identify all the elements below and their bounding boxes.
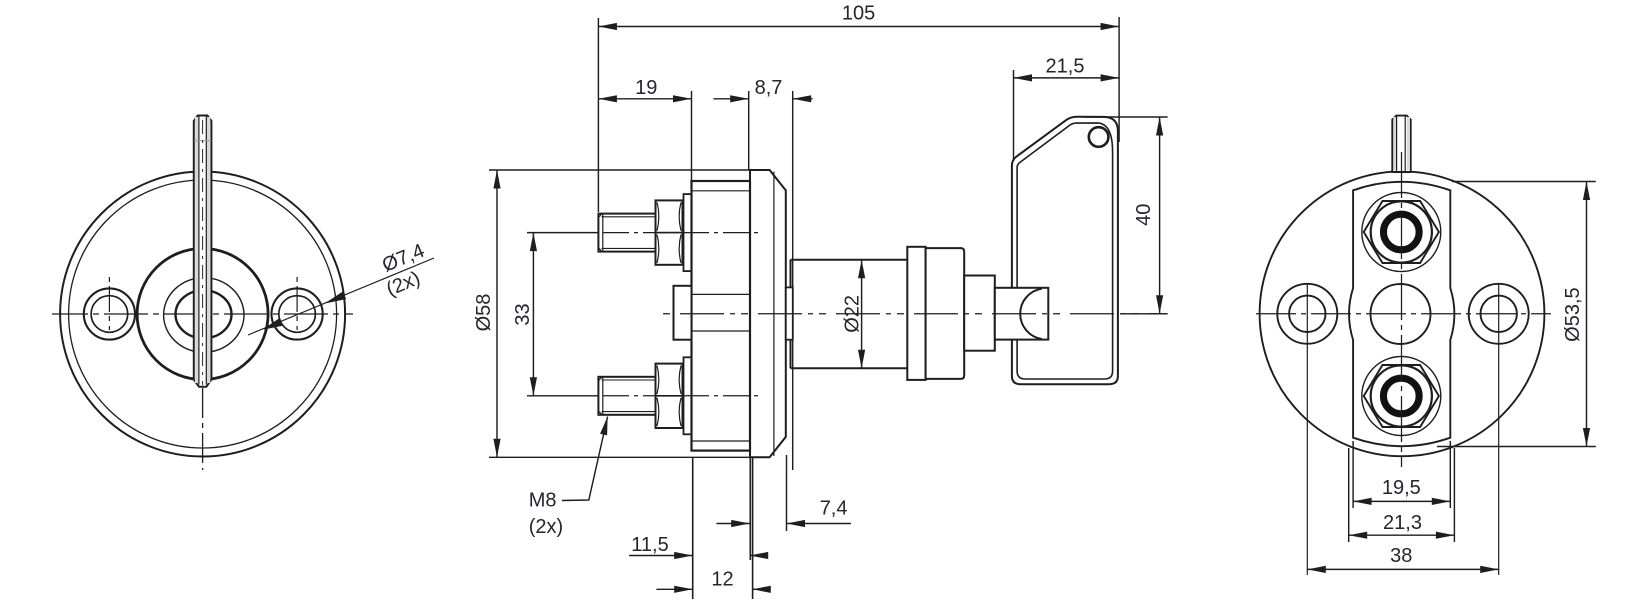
svg-text:21,3: 21,3 (1383, 512, 1422, 534)
svg-text:Ø22: Ø22 (842, 295, 864, 333)
svg-text:Ø53,5: Ø53,5 (1562, 287, 1584, 341)
svg-text:19,5: 19,5 (1382, 477, 1421, 499)
svg-text:33: 33 (512, 303, 534, 325)
svg-text:12: 12 (711, 569, 733, 591)
svg-text:40: 40 (1133, 204, 1155, 226)
svg-text:19: 19 (635, 77, 657, 99)
svg-text:M8: M8 (529, 490, 557, 512)
svg-text:(2x): (2x) (529, 516, 563, 538)
svg-text:38: 38 (1390, 545, 1412, 567)
svg-text:7,4: 7,4 (820, 498, 848, 520)
svg-text:21,5: 21,5 (1046, 56, 1085, 78)
svg-text:Ø58: Ø58 (473, 294, 495, 332)
svg-text:11,5: 11,5 (631, 534, 668, 556)
svg-text:105: 105 (842, 3, 875, 25)
svg-text:8,7: 8,7 (755, 77, 783, 99)
